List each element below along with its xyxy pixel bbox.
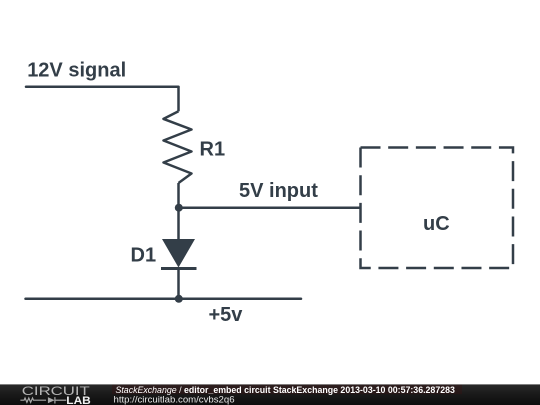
svg-text:http://circuitlab.com/cvbs2q6: http://circuitlab.com/cvbs2q6 bbox=[114, 394, 235, 405]
uC block (dashed box) bbox=[361, 148, 514, 269]
wire +5v rail bbox=[26, 298, 302, 301]
svg-text:uC: uC bbox=[423, 213, 450, 235]
svg-text:12V signal: 12V signal bbox=[27, 60, 126, 82]
svg-text:R1: R1 bbox=[200, 139, 226, 161]
junction node dot bottom bbox=[175, 295, 183, 303]
wire resistor top lead bbox=[177, 87, 180, 112]
diode D1 bbox=[161, 239, 197, 269]
CircuitLab logo schematic squiggle bbox=[20, 397, 66, 403]
footer bar bbox=[0, 384, 540, 405]
svg-text:D1: D1 bbox=[131, 245, 157, 267]
junction node dot bbox=[175, 204, 183, 212]
wire 12V signal horizontal bbox=[26, 85, 179, 88]
resistor R1 bbox=[164, 111, 192, 183]
wire diode cathode lead bbox=[177, 269, 180, 299]
footer title highlight bbox=[112, 385, 462, 394]
svg-text:LAB: LAB bbox=[66, 395, 91, 405]
svg-text:5V input: 5V input bbox=[239, 180, 318, 202]
wire 5V input to uC bbox=[179, 206, 361, 209]
wire resistor bottom lead to diode bbox=[177, 183, 180, 239]
svg-text:StackExchange / editor_embed c: StackExchange / editor_embed circuit Sta… bbox=[116, 385, 455, 395]
svg-text:+5v: +5v bbox=[209, 304, 244, 326]
